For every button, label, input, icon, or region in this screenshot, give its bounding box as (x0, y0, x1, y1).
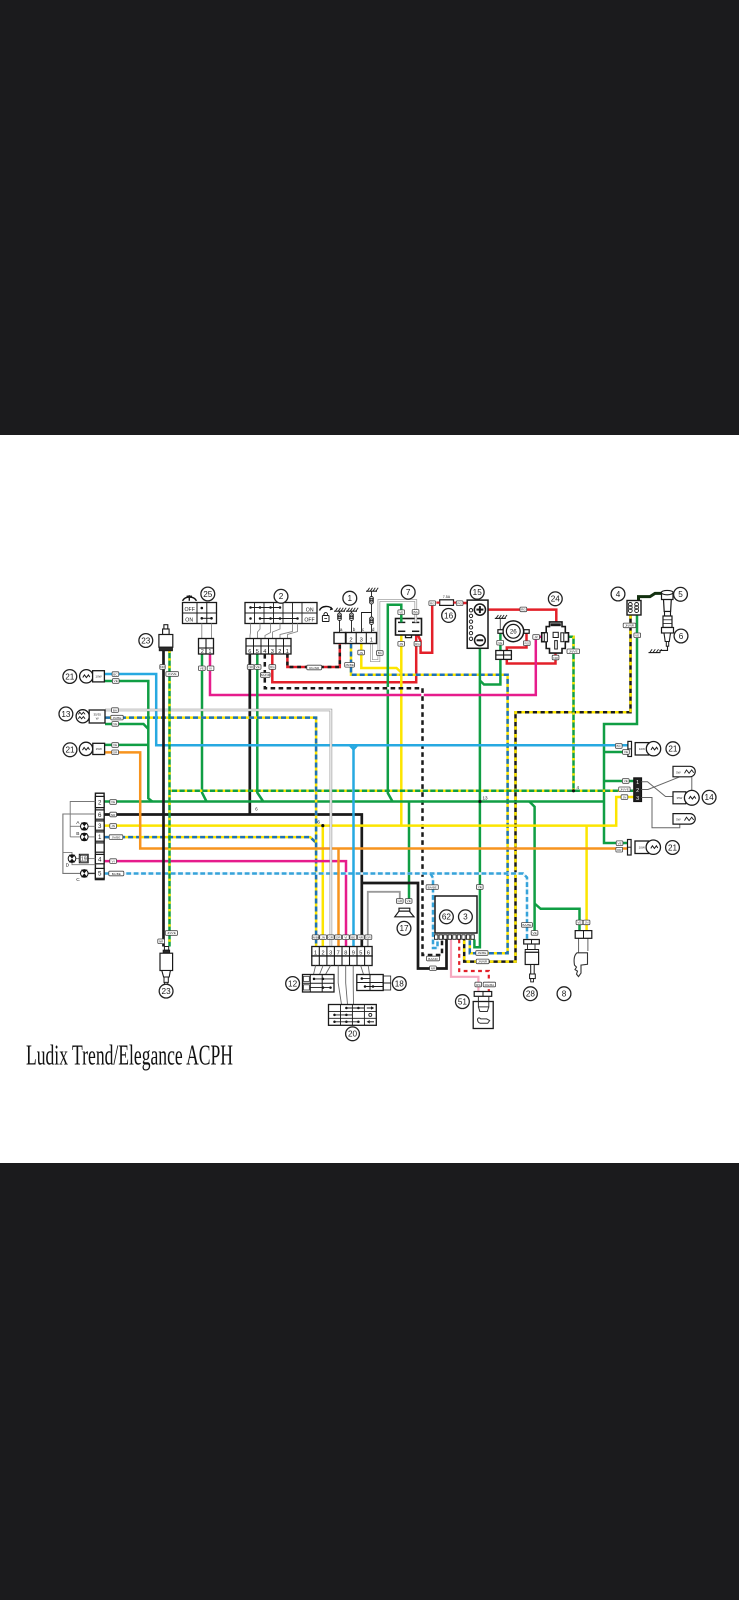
svg-text:NR: NR (160, 665, 165, 669)
svg-text:BA/BE: BA/BE (428, 885, 437, 889)
wire VE headlamp13 join (105, 724, 148, 729)
svg-text:JZ: JZ (534, 635, 538, 639)
headlight 14 connector (634, 778, 642, 802)
svg-text:VE: VE (478, 885, 482, 889)
wire NR instrument bus y814.5 (104, 815, 362, 947)
wire RG fuse to battery plus (463, 603, 474, 608)
svg-text:5: 5 (98, 871, 102, 878)
svg-text:BA/BE: BA/BE (112, 872, 121, 876)
junction node 4 (572, 789, 575, 792)
switch 2 to connector stepped links (249, 624, 252, 639)
wire VE regulator down to green bus (388, 605, 402, 802)
ignition coil 4 (627, 601, 641, 616)
wire JN-BE instrument pin1 bus y837 (104, 837, 316, 843)
svg-text:c: c (362, 627, 365, 632)
svg-text:JN: JN (623, 795, 627, 799)
label circle 2 (274, 589, 288, 603)
svg-text:8: 8 (562, 990, 567, 999)
label circle 28 (524, 987, 538, 1001)
svg-text:VE: VE (111, 800, 115, 804)
label circle 21 bottom-left (63, 743, 77, 757)
label circle 21 top-right (666, 742, 680, 756)
wire HT lead coil to spark plug cap (639, 593, 663, 600)
regulator 7 stubs (400, 614, 403, 622)
starter lever 8 (578, 938, 580, 953)
svg-text:2: 2 (278, 649, 281, 655)
svg-text:28: 28 (526, 990, 536, 999)
svg-text:A: A (76, 820, 80, 826)
fuse 16 (440, 600, 454, 606)
svg-text:RG: RG (415, 642, 420, 646)
svg-text:JN/BE: JN/BE (345, 663, 354, 667)
wire JN regulator to bus junction (400, 635, 403, 826)
label circle 18 (392, 977, 406, 991)
svg-text:21: 21 (668, 843, 678, 852)
wire RG connector2-pin3 to regulator bus y682 (272, 632, 416, 682)
svg-text:B: B (76, 831, 79, 837)
wire NR-JN ignition coil to CDI pin7 (464, 615, 630, 962)
svg-text:VE: VE (635, 634, 639, 638)
headlamp 13 35/35W (76, 710, 89, 723)
svg-text:5: 5 (256, 649, 259, 655)
main connector 8-pin row (312, 947, 372, 957)
svg-text:OFF: OFF (304, 618, 314, 624)
wire VE ignition coil to lighting green column (604, 615, 637, 843)
switch 2 rotation arrow (320, 606, 333, 610)
wire BA-BE branch to CDI pin1 (431, 874, 438, 949)
label circle 15 (470, 585, 484, 599)
switch 25 rotation arrow (183, 597, 197, 601)
connector 20 (329, 1005, 377, 1026)
svg-text:16: 16 (444, 611, 454, 620)
svg-text:JN/VE: JN/VE (167, 931, 176, 935)
svg-text:VE: VE (399, 611, 403, 615)
wire JN-BE headlamp13 to main connector pin1 (105, 718, 316, 947)
svg-text:VE: VE (113, 722, 117, 726)
ignition switch 1 connector blocks (334, 633, 346, 644)
label circle 17 (397, 921, 411, 935)
svg-text:C: C (76, 877, 80, 883)
wire VI instrument pin4 to connector pin8 (104, 861, 346, 946)
svg-text:10W: 10W (639, 846, 645, 850)
main connector second row (312, 956, 372, 966)
auto-choke 28 (524, 940, 540, 945)
svg-text:VE: VE (200, 667, 204, 671)
wire VE-JN bus y791 sensor23 to headlight pin2 (170, 790, 634, 793)
label circle 25 (201, 587, 215, 601)
spark plug 6 (665, 612, 671, 617)
label circle 51 (456, 995, 470, 1009)
svg-text:a: a (340, 627, 343, 632)
switch 2 contact dots (249, 606, 252, 609)
svg-text:OR: OR (113, 751, 118, 755)
svg-text:2: 2 (201, 649, 204, 655)
svg-text:21: 21 (668, 745, 678, 754)
wire JN-VE sensor23 vertical (168, 651, 171, 947)
wire color badges (247, 665, 254, 670)
svg-text:VE: VE (498, 641, 502, 645)
svg-text:VI: VI (344, 936, 347, 940)
CDI pin row (435, 935, 438, 940)
wire VE green column branch to top-right bulb (604, 751, 628, 754)
svg-text:RG/NR: RG/NR (309, 666, 320, 670)
svg-text:d: d (372, 627, 375, 632)
battery 15 minus terminal (475, 635, 486, 646)
ground spark plug (649, 652, 661, 654)
svg-text:b: b (353, 627, 356, 632)
svg-text:13: 13 (61, 710, 71, 719)
switch 25 handlebar (183, 603, 217, 624)
main connector badge row (312, 935, 319, 940)
svg-text:BE: BE (351, 936, 355, 940)
wire VE elbow to component 8 (535, 904, 580, 931)
svg-text:BA/BE: BA/BE (522, 923, 531, 927)
connector 2 six-pin block (246, 639, 291, 655)
svg-text:BA/NR: BA/NR (428, 957, 438, 961)
spark plug cap 5 (662, 592, 674, 611)
label circle 8 (557, 987, 571, 1001)
svg-text:4: 4 (263, 649, 266, 655)
sensor 23 bottom (plug) (164, 947, 168, 951)
svg-text:4: 4 (616, 590, 621, 599)
bulb 21 top-right 10W (628, 741, 632, 756)
wire OR branch to connector pin7 (337, 849, 340, 947)
label circle 12 (286, 977, 300, 991)
wire VE horn branch (408, 802, 411, 900)
svg-text:RG: RG (457, 602, 462, 606)
svg-text:ON: ON (306, 607, 314, 613)
svg-text:2: 2 (349, 638, 352, 644)
wire NR sensor23 vertical (162, 651, 165, 947)
headlight 14 main bulb (673, 792, 686, 804)
svg-text:6: 6 (98, 812, 102, 819)
wire JN-BE ignition pin2 to CDI (351, 644, 508, 954)
svg-text:JN: JN (321, 936, 325, 940)
wire RG-NR ignition-to-connector2 bus y667 (287, 644, 339, 668)
switch 2 lighting block (245, 603, 317, 624)
wire JN ignition pin3 join regulator yellow (361, 644, 401, 673)
svg-text:21: 21 (65, 672, 75, 681)
svg-text:VE: VE (114, 679, 118, 683)
wire RG battery to component 24 (485, 610, 556, 623)
label circle 7 (401, 585, 415, 599)
instrument cluster connector (95, 793, 104, 879)
svg-text:JN: JN (585, 921, 589, 925)
wire JN main yellow bus y825.6 (104, 797, 634, 826)
svg-text:NR: NR (359, 936, 364, 940)
svg-text:NR: NR (248, 665, 253, 669)
wire BA headlamp13 to connector pin3 (white) (105, 710, 331, 947)
svg-text:VE: VE (113, 743, 117, 747)
wire VE 15W bulb join (105, 744, 149, 747)
svg-text:5: 5 (678, 590, 683, 599)
svg-text:2: 2 (279, 592, 284, 601)
fuse block under relay 26 (496, 651, 512, 660)
headlight 14 harness lines (642, 782, 674, 797)
svg-text:1: 1 (208, 649, 211, 655)
wire JN branch to component 8 (585, 826, 588, 931)
svg-text:1: 1 (370, 638, 373, 644)
svg-text:OFF: OFF (185, 607, 195, 613)
svg-text:5W: 5W (676, 770, 681, 774)
ground relay 26 (495, 617, 506, 619)
svg-text:1: 1 (286, 649, 289, 655)
svg-text:18: 18 (395, 979, 405, 988)
label circle 16 (442, 609, 456, 623)
battery 15 box (467, 600, 488, 648)
svg-text:62: 62 (442, 913, 452, 922)
svg-text:RG: RG (270, 665, 275, 669)
wire BE branch split (350, 745, 354, 749)
svg-text:JN/BE: JN/BE (478, 951, 487, 955)
svg-text:1: 1 (98, 834, 102, 841)
wire JN branch to connector pin2 (322, 826, 325, 947)
svg-text:14: 14 (705, 793, 715, 802)
svg-text:RG/BA: RG/BA (485, 983, 496, 987)
svg-text:35W: 35W (677, 796, 683, 800)
label circle 20 (346, 1027, 360, 1041)
label circle 6 (674, 629, 688, 643)
ignition switch 1 grounds and coils (334, 610, 345, 612)
svg-text:JN/NR: JN/NR (478, 960, 488, 964)
wire NR branch to CDI loop pin3 (362, 883, 447, 969)
svg-text:RG: RG (524, 642, 529, 646)
svg-text:VE: VE (577, 921, 581, 925)
svg-text:JN: JN (111, 824, 115, 828)
switch 25 connector 2|1 (201, 624, 203, 639)
svg-text:JN: JN (359, 651, 363, 655)
svg-text:24: 24 (551, 595, 561, 604)
switch 2 key lock icon (322, 616, 329, 622)
svg-text:OR: OR (336, 936, 341, 940)
svg-text:6: 6 (248, 649, 251, 655)
svg-text:26: 26 (510, 629, 517, 636)
svg-text:RG: RG (521, 608, 526, 612)
bulb 21 top-left 10W (80, 670, 93, 683)
svg-text:GR: GR (328, 936, 333, 940)
wire RG regulator to fuse (417, 603, 433, 653)
svg-text:23: 23 (141, 636, 151, 645)
wire VE battery down to CDI pin9 (474, 648, 480, 947)
svg-text:23: 23 (162, 987, 172, 996)
label circle 21 bottom-right (666, 841, 680, 855)
wire VI switch25 to component 24 bus y695 (210, 640, 536, 695)
svg-text:2: 2 (636, 788, 639, 794)
svg-text:VE: VE (618, 842, 622, 846)
label circle 3 (459, 910, 473, 924)
svg-text:VE: VE (624, 750, 628, 754)
svg-text:VE: VE (256, 665, 260, 669)
wire VE switch25 pin2 to green bus (202, 654, 207, 802)
svg-text:12: 12 (288, 979, 298, 988)
wire BE top-left bulb to top-right bulb bus y745.3 (105, 674, 628, 745)
label circle 24 (548, 592, 562, 606)
headlight 14 position bulb (673, 766, 695, 777)
svg-text:7.5A: 7.5A (443, 595, 451, 599)
connector 12 (303, 975, 335, 993)
svg-text:RG: RG (430, 602, 435, 606)
svg-text:13: 13 (482, 796, 488, 801)
regulator 7 box (396, 619, 422, 636)
svg-text:5W: 5W (676, 818, 681, 822)
svg-text:NR: NR (553, 656, 558, 660)
svg-text:D: D (66, 862, 70, 868)
svg-text:15W: 15W (96, 747, 102, 751)
wire VE connector2 pin5 to green bus (257, 654, 263, 802)
svg-text:BA/NR: BA/NR (261, 673, 271, 677)
svg-text:1: 1 (348, 594, 353, 603)
wire BA ignition pin1 to regulator (white) (371, 601, 415, 661)
warning lamp C (81, 870, 89, 878)
svg-text:JN: JN (399, 642, 403, 646)
wire BA-BE instrument pin5 to component 28 (104, 874, 527, 940)
warning lamp D (68, 855, 76, 863)
wire GR horn to connector pin6 (368, 892, 400, 947)
wire VE-JN component24 to junction 4 (566, 637, 574, 791)
wire BE branch to connector pin9 (352, 745, 355, 946)
junction node 13 (478, 800, 481, 803)
svg-text:JN/VE: JN/VE (620, 788, 629, 792)
wire VE relay-26 branch to battery green (499, 633, 502, 650)
svg-text:7: 7 (406, 588, 411, 597)
label circle 13 (59, 707, 73, 721)
svg-text:GR: GR (366, 936, 371, 940)
wire VE green column branch to headlight pin1 (604, 780, 634, 783)
svg-text:NR: NR (111, 813, 116, 817)
junction node 6 on yellow bus (321, 824, 324, 827)
wire VE branch to components 28 and 8 (529, 802, 534, 936)
svg-text:VI: VI (209, 667, 212, 671)
svg-text:17: 17 (399, 924, 409, 933)
label circle 4 (611, 587, 625, 601)
svg-text:JN/BE: JN/BE (311, 936, 320, 940)
svg-text:VE: VE (624, 779, 628, 783)
label circle 23 bottom (159, 984, 173, 998)
svg-text:JN/BE: JN/BE (112, 835, 121, 839)
svg-text:6: 6 (679, 632, 684, 641)
component 24 flasher cross (542, 622, 569, 653)
svg-text:1: 1 (636, 780, 639, 786)
label circle 23 top (139, 634, 153, 648)
warning lamp B (81, 833, 89, 841)
sensor 23 top (plug) (164, 625, 168, 629)
svg-text:NR: NR (159, 940, 164, 944)
svg-text:6: 6 (317, 819, 320, 824)
svg-text:25: 25 (203, 590, 213, 599)
svg-text:19: 19 (81, 857, 87, 863)
svg-text:20: 20 (348, 1030, 358, 1039)
battery 15 plus terminal (474, 604, 485, 615)
svg-text:JN/VE: JN/VE (569, 650, 578, 654)
svg-text:3: 3 (463, 913, 468, 922)
svg-text:JN/NR: JN/NR (625, 624, 635, 628)
svg-text:3: 3 (271, 649, 274, 655)
starter relay 26 (503, 621, 524, 642)
svg-text:GR: GR (397, 899, 402, 903)
wire BA-NR connector2 pin4 to CDI pin2 (265, 654, 442, 955)
svg-text:15: 15 (473, 588, 483, 597)
instrument cluster internal wiring (70, 802, 95, 837)
main connector harness fan lines (314, 966, 316, 975)
svg-text:RS: RS (476, 983, 480, 987)
svg-text:3: 3 (636, 796, 639, 802)
svg-text:VE: VE (533, 931, 537, 935)
wire RG relay fuse-block to 24 bottom (507, 633, 527, 650)
svg-text:2: 2 (98, 799, 102, 806)
svg-text:BC: BC (617, 744, 622, 748)
svg-text:JN/VE: JN/VE (168, 672, 177, 676)
ignition switch 1 contact c link (362, 613, 372, 633)
warning lamp A (81, 823, 89, 831)
wire VE top-left bulb down to green bus (105, 681, 153, 802)
wire RG-BA CDI pin6 to oil sensor (459, 940, 489, 992)
label circle 14 (702, 790, 716, 804)
svg-text:NR: NR (431, 967, 436, 971)
headlight 14 lower bulb (673, 814, 695, 825)
wire VI stub into 24 (536, 636, 545, 639)
bulb 21 bottom-left 15W (79, 742, 92, 755)
svg-text:W: W (96, 717, 99, 721)
indicator box 19 (79, 854, 88, 863)
svg-text:3: 3 (360, 638, 363, 644)
svg-text:Ludix Trend/Elegance ACPH: Ludix Trend/Elegance ACPH (26, 1040, 233, 1071)
svg-text:3: 3 (98, 823, 102, 830)
wire RS CDI pin4 to oil sensor (451, 940, 478, 992)
wire VE main green bus y801.5 (104, 800, 604, 803)
oil level sensor 51 (474, 992, 492, 997)
svg-text:OR: OR (617, 848, 622, 852)
svg-text:VE: VE (407, 899, 411, 903)
label circle 21 top-left (63, 670, 77, 684)
svg-text:10W: 10W (95, 675, 101, 679)
horn 17 (399, 908, 410, 911)
ground lead spark plug (660, 646, 668, 650)
svg-text:4: 4 (98, 856, 102, 863)
label circle 1 (343, 591, 357, 605)
svg-text:JN/BE: JN/BE (113, 716, 122, 720)
wire OR left bulb to right bulb bus y848.5 (105, 752, 628, 848)
svg-text:VI: VI (112, 859, 115, 863)
svg-text:21: 21 (65, 746, 75, 755)
svg-text:4: 4 (577, 785, 580, 790)
wire NR connector2 pin6 to black bus (248, 654, 251, 815)
svg-text:6: 6 (255, 807, 258, 812)
svg-text:10W: 10W (639, 747, 645, 751)
connector 18 (357, 975, 383, 991)
svg-text:BC: BC (113, 672, 118, 676)
svg-text:ON: ON (185, 618, 193, 624)
bulb 21 bottom-right 10W (628, 840, 632, 856)
label circle 62 (440, 910, 454, 924)
CDI unit 62/3 box (435, 896, 477, 933)
svg-text:51: 51 (458, 998, 468, 1007)
label circle 5 (674, 587, 688, 601)
